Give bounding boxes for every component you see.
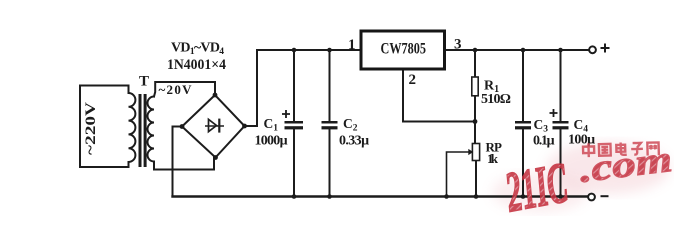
svg-text:1000μ: 1000μ: [255, 134, 288, 149]
svg-text:CW7805: CW7805: [381, 41, 427, 58]
svg-text:~20V: ~20V: [159, 82, 193, 97]
svg-text:C1: C1: [264, 116, 279, 134]
svg-text:~220V: ~220V: [83, 102, 99, 155]
svg-text:C2: C2: [343, 116, 358, 134]
svg-text:21IC: 21IC: [500, 151, 572, 218]
svg-text:VD1~VD4: VD1~VD4: [171, 41, 224, 58]
svg-text:1k: 1k: [487, 151, 499, 166]
svg-text:1: 1: [348, 37, 356, 53]
svg-text:0.33μ: 0.33μ: [339, 134, 369, 149]
svg-text:T: T: [139, 74, 149, 90]
svg-text:100μ: 100μ: [568, 133, 595, 148]
svg-text:3: 3: [454, 37, 462, 53]
svg-text:C3: C3: [534, 117, 549, 135]
svg-text:2: 2: [409, 72, 417, 88]
svg-text:0.1μ: 0.1μ: [533, 134, 555, 149]
svg-text:1N4001×4: 1N4001×4: [167, 57, 226, 73]
svg-text:510Ω: 510Ω: [481, 92, 511, 107]
